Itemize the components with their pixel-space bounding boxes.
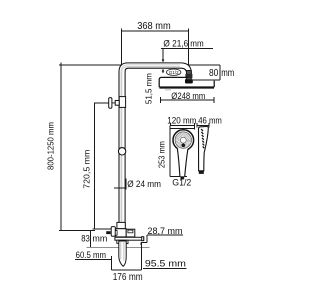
faucet valve body: [116, 229, 126, 237]
spout bar: [115, 237, 144, 240]
label 28,7 mm with leader: [141, 235, 183, 245]
svg-text:46 mm: 46 mm: [198, 115, 222, 125]
dimension 800-1250 mm: [59, 63, 122, 231]
svg-text:Ø248 mm: Ø248 mm: [171, 91, 205, 101]
handle stem: [115, 231, 117, 236]
svg-text:120 mm: 120 mm: [167, 115, 196, 125]
svg-text:mm: mm: [221, 68, 234, 79]
extension line left of 176: [110, 256, 112, 270]
dimension 253 mm bracket: [170, 125, 194, 176]
hand shower head front view: [173, 130, 194, 180]
svg-text:G1/2: G1/2: [172, 177, 191, 187]
overhead shower head disc: [159, 77, 214, 90]
svg-text:G1/2: G1/2: [169, 70, 179, 75]
handle dark nub: [106, 231, 110, 234]
svg-text:95.5 mm: 95.5 mm: [145, 258, 186, 269]
svg-text:720,5 mm: 720,5 mm: [81, 150, 91, 189]
svg-text:800-1250 mm: 800-1250 mm: [47, 122, 56, 170]
dimension Ø248 mm: [161, 97, 214, 103]
svg-text:83: 83: [81, 234, 90, 245]
dimension 720,5 mm: [93, 103, 118, 229]
svg-text:368 mm: 368 mm: [137, 21, 171, 32]
dimension 176 mm: [111, 269, 141, 271]
faucet inlet nut: [117, 222, 125, 228]
handle flange: [111, 227, 115, 237]
svg-text:176 mm: 176 mm: [113, 272, 143, 283]
slider holder assembly: [109, 97, 126, 109]
G1/2 oval label on arm: [167, 69, 181, 75]
label Ø 21,6 mm with leader: [161, 49, 213, 73]
dimension 80 mm: [189, 65, 220, 80]
svg-text:253 mm: 253 mm: [157, 141, 166, 168]
label Ø 24 mm with leader: [114, 178, 126, 189]
hose outlet teardrop: [119, 241, 126, 266]
under-valve blocks: [117, 240, 120, 243]
pipe joint circle: [118, 148, 125, 155]
svg-text:80: 80: [209, 68, 219, 79]
svg-text:28,7 mm: 28,7 mm: [148, 226, 183, 237]
faucet right block: [126, 229, 135, 237]
svg-text:51,5 mm: 51,5 mm: [144, 73, 154, 104]
svg-text:Ø 21,6: Ø 21,6: [163, 39, 188, 49]
riser pipe with top bend and shower arm: [119, 63, 191, 226]
svg-text:mm: mm: [190, 39, 204, 49]
dimension 46 mm (hand shower side): [197, 123, 209, 128]
spout end cap: [142, 237, 144, 241]
dimension 120 mm (hand shower): [170, 123, 194, 130]
svg-text:mm: mm: [92, 234, 107, 245]
extension line right of 176: [141, 243, 143, 271]
hand shower side view: [198, 126, 208, 173]
dimension 83 mm: [90, 231, 92, 247]
svg-text:Ø 24 mm: Ø 24 mm: [127, 179, 161, 190]
dimension 368 mm line: [121, 28, 188, 72]
gray reference line: [87, 246, 150, 248]
shower head connector mount: [187, 71, 192, 84]
